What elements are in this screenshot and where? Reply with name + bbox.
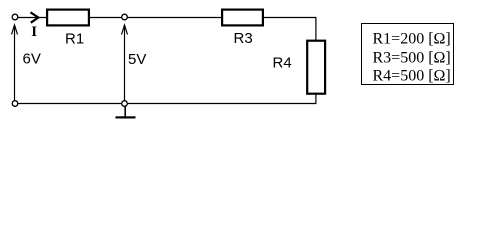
ground stem	[124, 106, 126, 117]
svg-text:6V: 6V	[23, 51, 41, 68]
svg-text:R3: R3	[234, 30, 253, 47]
svg-text:I: I	[31, 24, 37, 40]
svg-text:R1: R1	[65, 31, 84, 48]
voltage arrow 6V head	[12, 25, 18, 35]
wire R4 to bottom-right corner	[15, 95, 316, 104]
voltage arrow 5V stem	[124, 25, 126, 101]
resistor R1	[47, 10, 89, 26]
wire R1 to node 5V	[90, 17, 125, 19]
legend box	[362, 24, 454, 85]
node ground junction	[122, 101, 128, 107]
svg-text:R3=500 [Ω]: R3=500 [Ω]	[373, 50, 451, 67]
wire node 5V to R3	[125, 17, 222, 19]
voltage arrow 5V head	[122, 25, 128, 35]
svg-text:R1=200 [Ω]: R1=200 [Ω]	[373, 30, 451, 47]
current arrow I	[31, 12, 39, 22]
svg-text:5V: 5V	[128, 51, 146, 68]
terminal top-left	[12, 14, 18, 20]
voltage arrow 6V stem	[14, 25, 16, 101]
resistor R4	[307, 41, 325, 94]
terminal bottom-left	[12, 101, 18, 107]
wire top-left terminal to R1	[15, 17, 46, 19]
node 5V terminal	[122, 14, 128, 20]
wire R3 to top-right corner down to R4	[264, 18, 316, 41]
svg-text:R4: R4	[273, 55, 292, 72]
ground bar	[116, 116, 136, 118]
resistor R3	[222, 10, 263, 26]
svg-text:R4=500 [Ω]: R4=500 [Ω]	[373, 67, 451, 84]
